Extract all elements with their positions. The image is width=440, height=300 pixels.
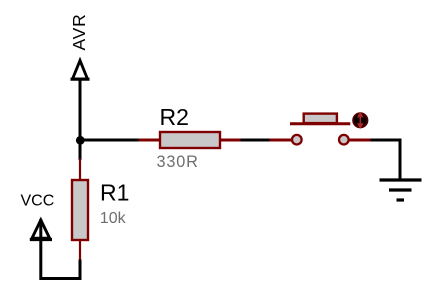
resistor R2 body — [160, 132, 220, 148]
svg-text:10k: 10k — [100, 210, 127, 227]
button terminal right — [339, 135, 349, 145]
pin R1 top — [79, 159, 81, 181]
power pin arrow AVR — [71, 61, 90, 80]
button terminal left — [292, 135, 302, 145]
node junction dot — [76, 136, 85, 145]
button toggle indicator — [353, 113, 367, 127]
pin button left — [270, 139, 294, 142]
pin R1 bottom — [79, 240, 81, 261]
wire junction to R2 — [80, 139, 140, 142]
ground — [380, 180, 422, 200]
wire R2 to button — [241, 139, 271, 142]
svg-text:R2: R2 — [160, 104, 189, 130]
pin button right — [349, 139, 372, 142]
svg-text:VCC: VCC — [21, 193, 55, 210]
svg-text:AVR: AVR — [69, 13, 89, 50]
button contact bar — [290, 122, 350, 125]
resistor R1 body — [72, 180, 88, 240]
wire AVR arrow to junction and R1 — [79, 80, 82, 160]
pin R2 right — [220, 139, 242, 142]
button actuator — [304, 114, 337, 124]
power pin arrow VCC — [30, 219, 52, 280]
svg-text:R1: R1 — [100, 179, 129, 205]
pin R2 left — [139, 139, 161, 142]
svg-text:330R: 330R — [157, 153, 199, 171]
wire button to ground corner — [371, 140, 401, 180]
wire R1 bottom to VCC — [41, 260, 80, 279]
